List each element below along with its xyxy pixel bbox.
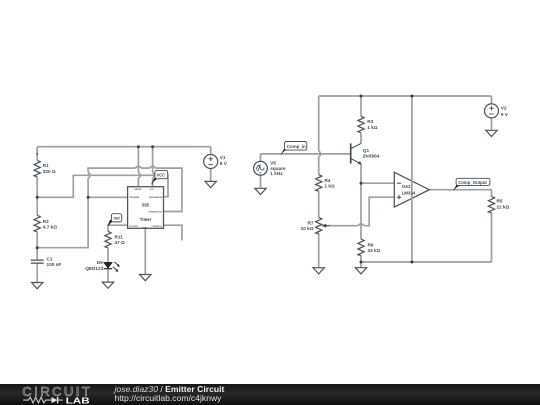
svg-text:D5: D5 [97, 260, 103, 265]
svg-text:CONTROL: CONTROL [151, 226, 162, 228]
svg-text:R3: R3 [367, 119, 373, 124]
svg-text:VCC: VCC [157, 173, 166, 178]
svg-text:1 kHz: 1 kHz [270, 171, 283, 176]
svg-text:Comp_in: Comp_in [287, 144, 306, 149]
svg-text:V2: V2 [501, 105, 507, 110]
svg-text:R11: R11 [115, 234, 124, 239]
svg-text:1 kΩ: 1 kΩ [367, 125, 378, 130]
svg-text:GND: GND [142, 228, 147, 230]
svg-text:THRESHOLD: THRESHOLD [148, 212, 162, 214]
svg-text:V1: V1 [220, 155, 226, 160]
svg-text:4.7 kΩ: 4.7 kΩ [43, 225, 57, 230]
svg-text:V5: V5 [270, 161, 276, 166]
svg-text:9 V: 9 V [220, 161, 228, 166]
svg-text:Comp_Output: Comp_Output [458, 180, 487, 185]
svg-text:R7: R7 [308, 220, 314, 225]
svg-text:TRIGGER: TRIGGER [129, 197, 139, 199]
svg-text:2N3904: 2N3904 [363, 154, 380, 159]
svg-text:LM324: LM324 [402, 191, 416, 196]
svg-text:C1: C1 [47, 256, 53, 261]
svg-text:22 kΩ: 22 kΩ [497, 204, 510, 209]
svg-text:square: square [270, 166, 286, 171]
svg-text:47 Ω: 47 Ω [115, 240, 126, 245]
svg-text:R4: R4 [325, 178, 331, 183]
svg-text:33 kΩ: 33 kΩ [368, 248, 381, 253]
svg-text:R1: R1 [43, 163, 49, 168]
svg-text:R5: R5 [497, 199, 503, 204]
svg-text:VCC: VCC [149, 189, 154, 191]
svg-text:Timer: Timer [140, 217, 152, 222]
svg-text:OUTPUT: OUTPUT [129, 226, 139, 228]
svg-text:RESET: RESET [134, 189, 142, 191]
svg-text:1 kΩ: 1 kΩ [325, 184, 336, 189]
svg-text:555: 555 [142, 203, 150, 208]
svg-text:out: out [113, 216, 120, 221]
svg-text:320 Ω: 320 Ω [43, 169, 56, 174]
svg-text:10 kΩ: 10 kΩ [301, 226, 314, 231]
svg-text:DISCHARGE: DISCHARGE [149, 196, 163, 199]
svg-text:LAB: LAB [66, 396, 90, 405]
svg-text:100 nF: 100 nF [47, 262, 62, 267]
svg-text:R6: R6 [368, 242, 374, 247]
svg-text:QED123: QED123 [85, 266, 103, 271]
svg-text:OA2: OA2 [402, 184, 412, 189]
svg-text:R2: R2 [43, 219, 49, 224]
svg-text:Q1: Q1 [363, 148, 370, 153]
svg-text:9 V: 9 V [501, 112, 509, 117]
